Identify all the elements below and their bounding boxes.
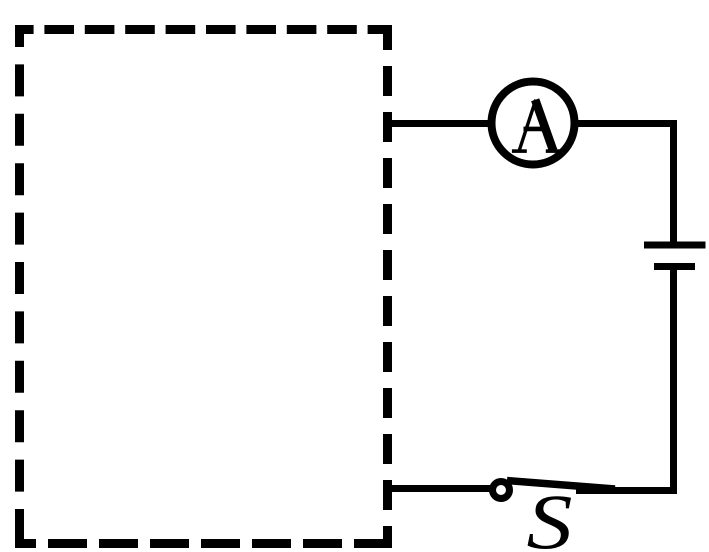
battery B1 short plate — [654, 263, 695, 270]
wire: ammeter to top-right corner — [576, 120, 677, 127]
wire: box to ammeter — [392, 120, 490, 127]
wire: battery down to bottom-right corner — [670, 267, 677, 495]
wire: bottom-right corner to switch contact — [576, 487, 677, 494]
wire: top-right vertical down to battery — [670, 120, 677, 245]
switch S blade — [507, 481, 615, 490]
battery B1 long plate — [644, 242, 706, 249]
wire: box to switch pivot — [392, 485, 490, 492]
switch S pivot — [493, 482, 510, 499]
black box (dashed enclosure) — [15, 25, 392, 548]
svg-text:S: S — [527, 479, 573, 552]
ammeter A1 — [492, 82, 575, 165]
